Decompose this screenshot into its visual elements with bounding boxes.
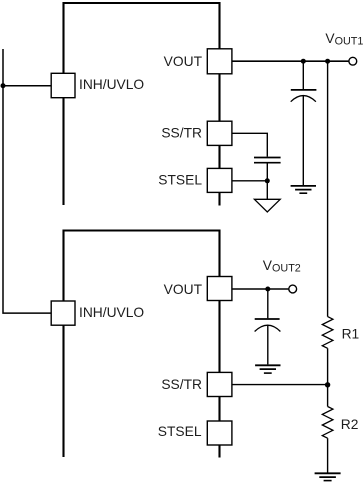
junction: CSS1 / STSEL <box>265 178 270 183</box>
wire: COUT2 lower lead <box>267 325 269 364</box>
wire: R2 to ground <box>327 438 329 473</box>
wire: COUT1 lower lead <box>302 96 304 185</box>
wire: U1 SS/TR to CSS1 <box>232 133 267 156</box>
resistor R2 <box>322 407 333 439</box>
svg-text:SS/TR: SS/TR <box>161 377 202 392</box>
terminal VOUT1 <box>349 57 357 65</box>
svg-text:VOUT2: VOUT2 <box>263 258 301 275</box>
svg-text:VOUT1: VOUT1 <box>325 31 363 48</box>
pin U1 SS/TR <box>207 121 232 145</box>
pin U1 VOUT <box>207 49 232 74</box>
ground (COUT2) <box>255 365 280 373</box>
junction: COUT2 tap <box>265 287 270 292</box>
svg-text:STSEL: STSEL <box>158 173 202 188</box>
converter U2 outline <box>64 231 220 458</box>
wire: node to triangle ground <box>266 181 268 200</box>
wire: U1 INH/UVLO to rail <box>3 85 51 87</box>
junction: COUT1 tap <box>301 59 306 64</box>
svg-text:VOUT: VOUT <box>164 54 203 69</box>
wire: U1 STSEL to node <box>232 180 267 182</box>
svg-text:INH/UVLO: INH/UVLO <box>79 305 144 320</box>
pin U2 VOUT <box>207 277 232 301</box>
svg-text:VOUT: VOUT <box>164 282 203 297</box>
pin U1 STSEL <box>207 168 232 192</box>
svg-text:SS/TR: SS/TR <box>161 126 202 141</box>
svg-text:R2: R2 <box>341 417 359 432</box>
wire: feedback rail from VOUT1 <box>327 61 329 316</box>
terminal VOUT2 <box>289 285 297 293</box>
wire: R1 to node <box>327 348 329 385</box>
wire: COUT1 upper lead <box>302 61 304 89</box>
svg-text:STSEL: STSEL <box>158 424 202 439</box>
wire: U2 INH/UVLO stub <box>50 312 52 314</box>
pin U2 STSEL <box>207 421 232 445</box>
capacitor COUT2 (polarized) <box>255 319 281 332</box>
wire: node to R2 <box>327 385 329 407</box>
junction: R1/R2/SSTR2 node <box>325 382 330 387</box>
resistor R1 <box>322 317 333 349</box>
ground (triangle) <box>254 199 280 212</box>
ground (COUT1) <box>291 186 316 193</box>
capacitor COUT1 (polarized) <box>291 90 317 102</box>
wire: COUT2 upper lead <box>267 289 269 318</box>
ground (R2) <box>315 473 341 480</box>
wire: U2 VOUT to terminal <box>232 288 289 290</box>
junction: feedback rail tap <box>325 59 330 64</box>
svg-text:R1: R1 <box>342 327 360 342</box>
svg-text:INH/UVLO: INH/UVLO <box>79 77 144 92</box>
wire: CSS1 to STSEL node <box>266 164 268 182</box>
capacitor CSS1 <box>254 158 281 163</box>
wire: U2 SS/TR to feedback node <box>232 384 328 386</box>
junction: rail / U1 INH wire <box>1 83 6 88</box>
pin U1 INH/UVLO <box>51 73 75 97</box>
pin U2 INH/UVLO <box>51 301 75 325</box>
converter U1 outline <box>64 3 220 206</box>
pin U2 SS/TR <box>207 372 232 396</box>
wire: enable rail (left) <box>3 49 51 313</box>
wire: U1 VOUT to terminal <box>232 60 349 62</box>
